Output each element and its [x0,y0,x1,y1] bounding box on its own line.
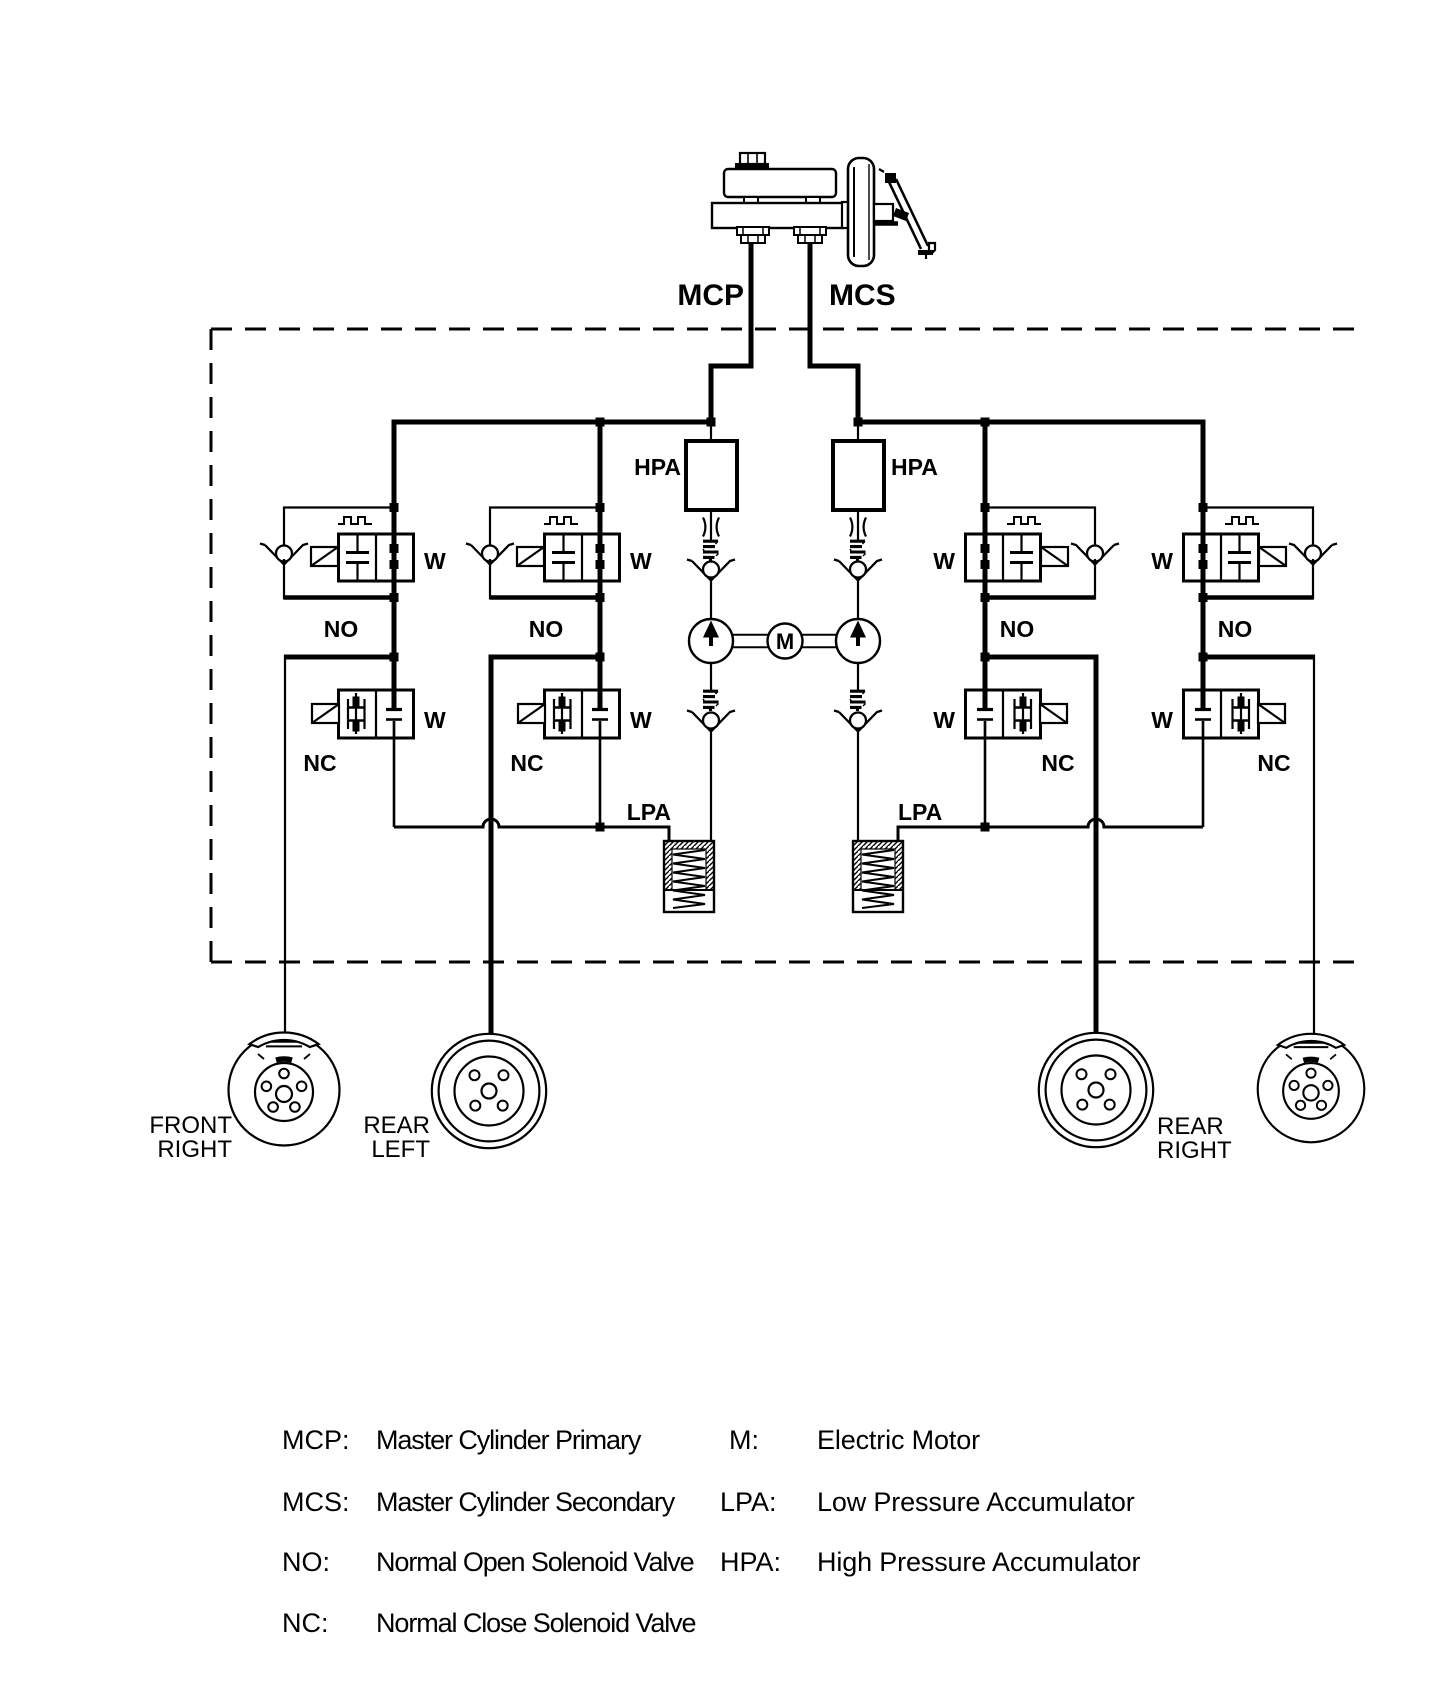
wire pump left outlet [710,663,712,690]
svg-text:Normal Close Solenoid Valve: Normal Close Solenoid Valve [376,1608,696,1638]
orifice left [703,518,719,537]
check valve right lower [834,711,882,732]
wire rear left drum inlet bar [478,1035,501,1039]
svg-text:W: W [933,548,955,574]
svg-text:HPA:: HPA: [720,1547,781,1577]
brake pedal [879,169,935,259]
master cylinder reservoir cap [735,153,769,169]
node collector junction B [596,823,605,832]
svg-text:MCP:: MCP: [282,1425,350,1455]
wire left collector with hop [394,819,669,841]
svg-text:NO: NO [529,616,564,642]
svg-text:W: W [933,707,955,733]
svg-text:W: W [1151,707,1173,733]
svg-text:NO: NO [1218,616,1253,642]
accumulator LPA left [664,841,714,912]
svg-text:Master Cylinder Secondary: Master Cylinder Secondary [376,1487,676,1517]
node collector junction C [981,823,990,832]
check valve left lower [687,711,735,732]
svg-text:FRONT: FRONT [149,1112,232,1139]
svg-text:W: W [424,548,446,574]
wire front right feed [284,655,286,1036]
wheel rear right drum [1039,1033,1153,1147]
booster flange [842,202,849,228]
svg-text:REAR: REAR [363,1112,430,1139]
svg-text:Electric Motor: Electric Motor [817,1425,980,1455]
svg-text:NC: NC [1041,750,1074,776]
svg-text:NC: NC [1257,750,1290,776]
svg-text:W: W [630,707,652,733]
wire NC-C outlet [984,721,987,827]
damper spring left lower [703,691,719,711]
check valve right upper [834,560,882,581]
wire MCS line [810,243,858,422]
svg-text:NC: NC [510,750,543,776]
solenoid valve NC column D [1184,690,1286,738]
wire wheel branch column A [285,655,394,660]
svg-text:HPA: HPA [891,454,938,480]
wire front left feed [1313,655,1315,1035]
svg-text:M: M [776,629,794,654]
svg-text:NO: NO [1000,616,1035,642]
accumulator HPA right [833,441,884,510]
wire column C main [983,422,988,708]
MCP outlet port [737,227,769,243]
svg-text:W: W [424,707,446,733]
wheel rear left drum [432,1034,546,1148]
wire rear right drum inlet bar [1085,1035,1108,1039]
accumulator HPA left [686,441,737,510]
wire right collector with hop [898,819,1203,841]
svg-text:NO:: NO: [282,1547,330,1577]
dashed HCU border box [211,329,1358,962]
vacuum booster [848,158,874,266]
wire HPA left to pump [710,510,712,540]
wire NC-A outlet [393,721,396,827]
svg-text:Master Cylinder Primary: Master Cylinder Primary [376,1425,642,1455]
svg-text:Low Pressure Accumulator: Low Pressure Accumulator [817,1487,1135,1517]
svg-text:RIGHT: RIGHT [1157,1137,1232,1164]
wire secondary bus + column D main [858,422,1203,708]
wire HPA right drop [857,422,859,441]
solenoid valve NO column B [466,503,620,602]
svg-text:REAR: REAR [1157,1113,1224,1140]
solenoid valve NO column D [1184,503,1338,602]
check valve left upper [687,560,735,581]
svg-text:M:: M: [729,1425,759,1455]
node bus junction B [596,418,605,427]
wire column B main [598,422,603,708]
orifice right [850,518,866,537]
svg-text:LPA: LPA [627,799,671,825]
node bus junction HPA right [854,418,863,427]
master cylinder reservoir [724,169,836,203]
svg-text:NC:: NC: [282,1608,329,1638]
pump left [689,619,733,663]
svg-text:HPA: HPA [634,454,681,480]
node junction C [981,653,990,662]
MCS outlet port [794,227,826,243]
node bus junction HPA left [707,418,716,427]
node bus junction C [981,418,990,427]
svg-text:LEFT: LEFT [371,1136,430,1163]
booster pushrod [874,204,898,224]
node junction A [390,653,399,662]
svg-text:W: W [1151,548,1173,574]
solenoid valve NC column A [312,690,414,738]
svg-text:RIGHT: RIGHT [157,1136,232,1163]
accumulator LPA right [853,841,903,912]
wire wheel branch column D [1203,655,1314,660]
electric motor M [733,624,836,659]
node junction D [1199,653,1208,662]
wire left pump to LPA [710,728,712,841]
solenoid valve NO column A [260,503,414,602]
solenoid valve NC column C [966,690,1068,738]
svg-text:High Pressure Accumulator: High Pressure Accumulator [817,1547,1141,1577]
wire wheel branch + rear right feed [985,657,1096,1037]
wheel front left disc [1258,1034,1365,1142]
svg-text:Normal Open Solenoid Valve: Normal Open Solenoid Valve [376,1547,694,1577]
damper spring left upper [703,541,719,561]
svg-text:MCS:: MCS: [282,1487,350,1517]
wire NC-B outlet [599,721,602,827]
wire pump right outlet [857,663,859,690]
wire HPA left drop [710,422,712,441]
wire MCP line [711,243,751,422]
damper spring right upper [850,541,866,561]
svg-text:LPA: LPA [898,799,942,825]
wire HPA right to pump [857,510,859,540]
svg-text:NO: NO [324,616,359,642]
wire right pump to LPA [857,728,859,841]
wire NC-D outlet [1202,721,1205,827]
pump right [836,619,880,663]
wire primary bus + column A main [394,422,711,708]
svg-text:MCP: MCP [677,279,744,312]
svg-text:MCS: MCS [829,279,896,312]
damper spring right lower [850,691,866,711]
svg-text:LPA:: LPA: [720,1487,777,1517]
solenoid valve NO column C [966,503,1120,602]
svg-text:W: W [630,548,652,574]
master cylinder body [712,203,843,228]
wire wheel branch + rear left feed [491,657,600,1037]
node junction B [596,653,605,662]
svg-text:NC: NC [303,750,336,776]
wheel front right disc [229,1033,340,1146]
solenoid valve NC column B [518,690,620,738]
